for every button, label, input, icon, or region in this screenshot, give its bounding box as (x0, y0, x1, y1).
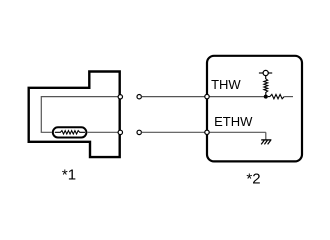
svg-text:*2: *2 (246, 170, 260, 187)
wire sensor pill to terminal (88, 131, 118, 133)
resistor series (horizontal) (268, 94, 284, 98)
resistor pull-up (vertical) (264, 79, 268, 97)
wire sensor loop top (41, 97, 118, 133)
terminal circle sensor THW (118, 95, 122, 99)
wire harness THW (141, 96, 265, 98)
wire harness ETHW (141, 131, 265, 133)
terminal circle harness ETHW (137, 130, 141, 134)
terminal circle harness THW (137, 95, 141, 99)
terminal circle sensor ETHW (118, 130, 122, 134)
power terminal symbol (259, 70, 272, 79)
resistor (thermistor element) (55, 131, 85, 134)
ground symbol (261, 140, 271, 145)
terminal circle ECU THW (205, 94, 209, 98)
junction dot THW node (264, 95, 268, 99)
wire stub after resistor (284, 96, 293, 98)
terminal circle ECU ETHW (205, 130, 209, 134)
ECU box *2 (207, 56, 302, 162)
wire ETHW drop to ground (265, 132, 267, 139)
svg-text:ETHW: ETHW (214, 114, 253, 129)
svg-text:*1: *1 (62, 167, 76, 184)
svg-text:THW: THW (211, 77, 241, 92)
thermistor pill outline (53, 127, 87, 137)
sensor connector outline *1 (29, 72, 120, 158)
